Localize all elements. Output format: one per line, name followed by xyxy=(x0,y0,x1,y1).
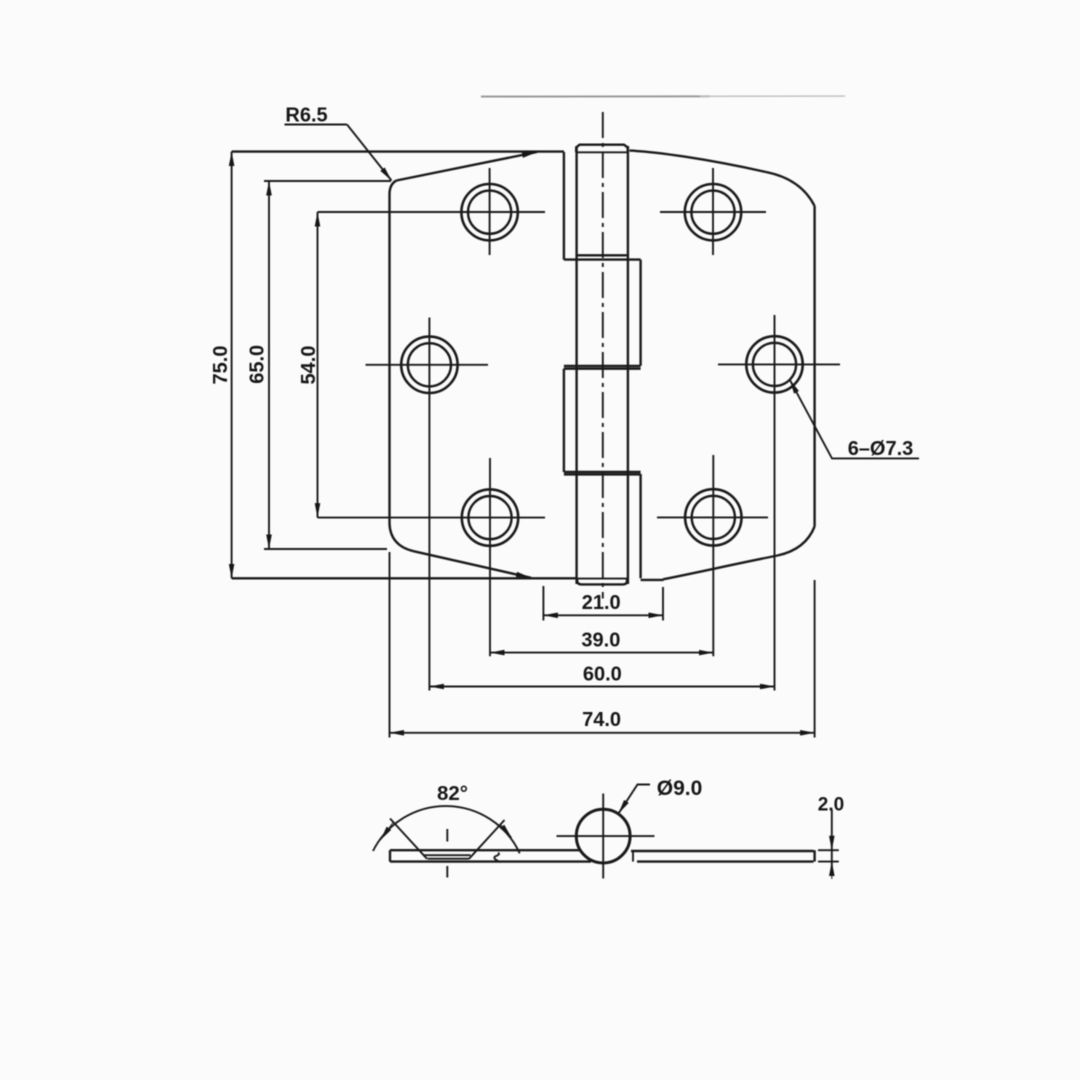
knuckle joint 1 lines xyxy=(577,254,628,256)
plate break squiggle xyxy=(494,853,500,862)
hole mid-right centerlines xyxy=(718,363,840,365)
svg-text:Ø9.0: Ø9.0 xyxy=(657,777,703,800)
left leaf slot edge lower (knuckle 3) xyxy=(563,369,565,472)
barrel section circle xyxy=(576,809,630,863)
label 6-dia7.3 leader xyxy=(790,380,919,459)
hole mid-right outer xyxy=(746,336,802,392)
barrel left edge xyxy=(575,146,577,584)
hole top-left centerlines xyxy=(318,211,546,213)
svg-text:82°: 82° xyxy=(437,782,468,805)
dimension 21.0 extension right xyxy=(662,587,664,621)
angle 82 left leg xyxy=(390,819,427,859)
dimension 74.0 extension left xyxy=(389,552,391,738)
hole bottom-left inner xyxy=(468,496,511,539)
svg-text:60.0: 60.0 xyxy=(583,663,622,685)
hole top-right inner xyxy=(691,191,734,234)
dimension 74.0 extension right xyxy=(814,580,816,738)
label R6.5 leader xyxy=(347,125,392,181)
angle 82 arc arrow left xyxy=(381,823,394,841)
dimension 75.0 line xyxy=(231,152,233,579)
hole top-right centerlines xyxy=(660,211,766,213)
right leaf bottom sloped edge xyxy=(663,556,778,580)
dimension 2.0 extension top xyxy=(818,849,839,851)
label dia9.0 leader xyxy=(619,785,651,814)
right leaf bottom-right corner xyxy=(778,527,815,556)
hole mid-left centerlines xyxy=(366,364,489,366)
knuckle joint 2 lines xyxy=(564,365,641,367)
hole top-left outer xyxy=(461,184,517,240)
hole bottom-left outer xyxy=(462,489,518,545)
left leaf left edge xyxy=(388,194,390,524)
countersink mid line xyxy=(423,854,471,856)
dimension 65.0 extension bottom xyxy=(264,548,387,550)
angle 82 arc arrow right xyxy=(500,824,512,838)
left leaf top sloped edge xyxy=(397,152,538,181)
arrow at top sloped edge xyxy=(510,152,537,157)
left leaf slot edge upper xyxy=(563,152,565,260)
dimension 54.0 line xyxy=(317,212,319,518)
countersink centerline dashes xyxy=(446,829,448,842)
dimension 21.0 line xyxy=(543,614,663,616)
dimension 2.0 extension bottom xyxy=(818,861,839,863)
dimension 2.0 line xyxy=(831,810,833,876)
dimension 21.0 extension left xyxy=(542,586,544,621)
right leaf junction tick xyxy=(632,851,634,862)
dimension 60.0 line xyxy=(429,686,774,688)
section view plate bottom edge xyxy=(390,860,591,862)
dimension 75.0 text xyxy=(210,346,232,385)
svg-text:75.0: 75.0 xyxy=(210,346,232,385)
hole mid-left outer xyxy=(401,337,457,393)
pin bottom cap xyxy=(577,579,627,585)
pin vertical centerline xyxy=(602,112,604,599)
angle 82 arc xyxy=(373,806,520,853)
barrel section centerlines xyxy=(557,835,655,837)
faint top border line xyxy=(481,95,710,97)
dimension 2.0 arrow up xyxy=(831,862,833,879)
pin top cap xyxy=(576,145,628,153)
svg-text:R6.5: R6.5 xyxy=(285,104,327,126)
svg-text:65.0: 65.0 xyxy=(247,345,269,384)
dimension 65.0 extension top xyxy=(264,180,391,182)
section view plate left end xyxy=(389,850,391,861)
hole mid-left inner xyxy=(408,343,451,386)
left leaf bottom edge line (with 75.0 extension) xyxy=(232,577,577,579)
hole bottom-right inner xyxy=(692,496,735,539)
right leaf right edge xyxy=(813,206,815,527)
section view plate top edge xyxy=(390,849,580,851)
label R6.5 underline xyxy=(285,124,348,126)
svg-text:54.0: 54.0 xyxy=(298,346,320,385)
hole top-right outer xyxy=(685,184,741,240)
right leaf slot edge (knuckle 2) xyxy=(639,260,641,366)
right leaf top-right corner xyxy=(766,172,815,206)
hole bottom-right outer xyxy=(685,489,741,545)
svg-text:21.0: 21.0 xyxy=(582,592,621,614)
left leaf top-left corner R6.5 xyxy=(390,181,397,194)
hole bottom-left centerlines xyxy=(318,517,546,519)
right leaf top edge line xyxy=(630,151,767,172)
dimension 65.0 line xyxy=(268,181,270,549)
angle 82 right leg xyxy=(469,820,505,859)
svg-text:2.0: 2.0 xyxy=(818,795,844,816)
svg-text:6–Ø7.3: 6–Ø7.3 xyxy=(848,438,914,460)
hole top-left inner xyxy=(468,191,511,234)
barrel right edge xyxy=(627,146,629,584)
dimension 74.0 line xyxy=(390,732,815,734)
dimension 39.0 line xyxy=(490,652,713,654)
dimension 54.0 text xyxy=(298,346,320,385)
right leaf bottom edge line xyxy=(641,579,664,581)
right leaf slot edge (knuckle 4) xyxy=(639,474,641,578)
left leaf bottom sloped edge xyxy=(414,551,532,578)
svg-text:39.0: 39.0 xyxy=(581,630,620,652)
hole bottom-right centerlines xyxy=(657,516,768,518)
section view plate right end xyxy=(813,850,815,861)
left leaf top edge line (with 75.0 extension) xyxy=(232,150,564,152)
left leaf bottom-left corner xyxy=(390,524,414,552)
dimension 2.0 arrow down xyxy=(831,828,833,850)
dimension 65.0 text xyxy=(247,345,269,384)
arrow at bottom sloped edge xyxy=(505,572,531,578)
knuckle joint 3 lines xyxy=(564,471,641,473)
svg-text:74.0: 74.0 xyxy=(582,709,621,731)
hole mid-right inner xyxy=(753,343,796,386)
countersink bottom xyxy=(428,858,470,860)
